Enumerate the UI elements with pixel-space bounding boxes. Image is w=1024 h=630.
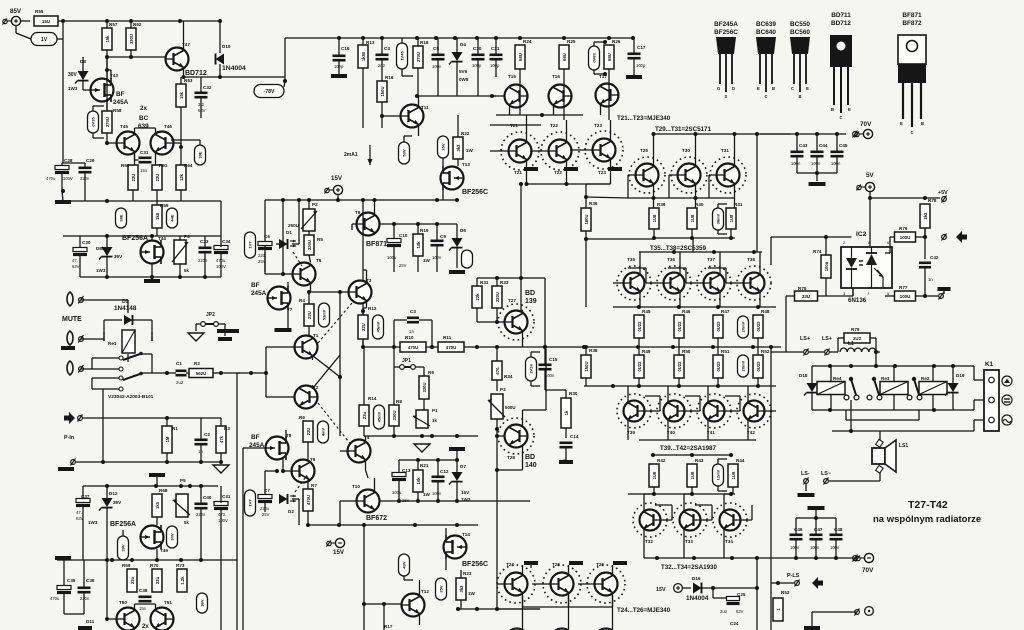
label 2SA1930 bbox=[661, 564, 717, 571]
resistor R73 bbox=[176, 563, 187, 592]
svg-text:BF: BF bbox=[251, 434, 260, 441]
wire Re4 wires bbox=[830, 366, 832, 410]
label 1W3 D12 bbox=[88, 520, 98, 525]
label D11 bbox=[86, 619, 95, 624]
svg-text:T23: T23 bbox=[598, 170, 606, 175]
svg-text:1U8: 1U8 bbox=[652, 471, 657, 479]
label 1W R23 bbox=[468, 591, 476, 596]
svg-text:3k3: 3k3 bbox=[459, 585, 464, 593]
connector 15V bot conn bbox=[327, 538, 345, 547]
svg-text:C30: C30 bbox=[82, 240, 91, 245]
svg-text:T30: T30 bbox=[682, 148, 690, 153]
wire x497 col bbox=[496, 584, 498, 609]
wire x497 col3 bbox=[496, 447, 498, 584]
svg-text:G: G bbox=[717, 86, 720, 91]
label 6N136 bbox=[848, 297, 867, 304]
transistor T3 bbox=[349, 278, 372, 304]
label 5V bbox=[866, 172, 874, 179]
svg-text:T22: T22 bbox=[550, 123, 558, 128]
resistor R3 bbox=[216, 426, 230, 453]
svg-text:C: C bbox=[840, 115, 843, 120]
label BF T8 bbox=[251, 434, 260, 441]
wire T7 links bbox=[287, 282, 289, 329]
svg-text:C37: C37 bbox=[81, 494, 90, 499]
label 2mA1 bbox=[344, 152, 358, 158]
wire R64 bot bbox=[180, 190, 182, 201]
node nR36t bbox=[584, 195, 588, 199]
node nT28b bbox=[495, 434, 499, 438]
label 15V d16 bbox=[656, 587, 666, 593]
svg-text:R2: R2 bbox=[194, 361, 200, 366]
wire 70V rail bbox=[760, 133, 846, 135]
resistor R1 bbox=[162, 426, 178, 453]
wire R50 top bbox=[678, 347, 680, 355]
resistor R63 bbox=[176, 78, 193, 107]
node n43 bbox=[105, 68, 109, 72]
wire riser x285 bbox=[284, 38, 286, 77]
svg-text:1W3: 1W3 bbox=[461, 497, 471, 502]
wire C1-R2 bbox=[167, 372, 189, 374]
wire R45 bot bbox=[638, 338, 640, 347]
svg-text:100n: 100n bbox=[790, 545, 800, 550]
wire T28 links bbox=[523, 410, 547, 460]
label 1N4004 b bbox=[686, 595, 709, 602]
wire main top bus bbox=[285, 37, 634, 39]
node reg2 nodes bbox=[105, 484, 203, 488]
svg-text:39V: 39V bbox=[113, 500, 122, 505]
wire rail y525 bbox=[309, 524, 478, 526]
label MUTE bbox=[62, 316, 82, 323]
label BC bbox=[139, 115, 149, 122]
svg-text:T10: T10 bbox=[352, 484, 360, 489]
wire N2 bots bbox=[796, 540, 836, 558]
node nR4 bbox=[307, 290, 311, 294]
svg-text:C: C bbox=[791, 86, 794, 91]
wire C4 links bbox=[381, 38, 383, 81]
wire Re2 wires bbox=[932, 366, 934, 410]
svg-text:T44: T44 bbox=[158, 236, 166, 241]
label 100V C41 bbox=[218, 518, 228, 523]
wire R7 bot bbox=[307, 511, 309, 525]
zener diode D4 bbox=[449, 42, 466, 65]
wire T6-R7 bbox=[307, 480, 309, 490]
wire C29 links bbox=[84, 163, 86, 201]
connector 70V open bbox=[853, 131, 858, 138]
diode D10 bbox=[216, 44, 231, 65]
svg-text:P5: P5 bbox=[180, 478, 186, 483]
resistor R62 bbox=[126, 22, 142, 50]
test-point oval 1V45 bbox=[397, 43, 408, 69]
wire out emitters bbox=[640, 292, 760, 307]
svg-text:C45: C45 bbox=[839, 143, 848, 148]
capacitor C4 bbox=[376, 46, 391, 68]
svg-text:C40: C40 bbox=[203, 495, 212, 500]
jumper JP2 bbox=[201, 322, 219, 327]
wire R61 top bbox=[155, 152, 157, 165]
speaker conn bot bbox=[876, 465, 884, 473]
svg-text:Re1: Re1 bbox=[108, 341, 117, 346]
svg-text:R22: R22 bbox=[461, 131, 470, 136]
test-point oval 35V bot bbox=[436, 578, 447, 600]
wire T36 c bbox=[679, 252, 681, 275]
test-point oval 53V bbox=[399, 142, 410, 164]
svg-text:R75: R75 bbox=[798, 286, 807, 291]
node nA bbox=[105, 199, 109, 203]
potentiometer P5 bbox=[173, 478, 190, 525]
wire T4 c bbox=[365, 436, 367, 443]
wire R55 to node bbox=[58, 20, 63, 22]
transistor T19 (partial) bbox=[551, 629, 574, 630]
wire x497 col2 bbox=[496, 429, 498, 447]
wire R9 bot bbox=[423, 399, 425, 410]
svg-text:D10: D10 bbox=[222, 44, 231, 49]
svg-text:330U: 330U bbox=[422, 382, 427, 392]
wire R74 wires bbox=[825, 237, 827, 296]
wire T46 base right bbox=[174, 142, 182, 144]
svg-text:12mV: 12mV bbox=[716, 469, 721, 480]
K1 icons bbox=[1002, 376, 1012, 425]
svg-text:6N136: 6N136 bbox=[848, 297, 867, 304]
transistor T15 bbox=[505, 74, 528, 108]
svg-text:63V: 63V bbox=[72, 264, 80, 269]
svg-text:T23: T23 bbox=[594, 123, 602, 128]
resistor R76 bbox=[895, 226, 916, 242]
wire y184-ext bbox=[520, 184, 522, 276]
wire sw out bbox=[141, 354, 167, 373]
svg-text:R62: R62 bbox=[133, 22, 142, 27]
wire gnd out2 stub bbox=[943, 291, 945, 294]
transistor T1 bbox=[295, 333, 319, 359]
wire C28 bot bbox=[62, 173, 63, 201]
wire base bus 2 bbox=[490, 124, 541, 126]
svg-text:R14: R14 bbox=[368, 396, 377, 401]
svg-text:S: S bbox=[725, 94, 728, 99]
svg-text:T46: T46 bbox=[164, 124, 172, 129]
label BD139b bbox=[525, 298, 537, 305]
svg-text:K1: K1 bbox=[985, 361, 993, 368]
wire R33 bot bbox=[496, 308, 498, 322]
svg-text:470u: 470u bbox=[46, 176, 56, 181]
svg-text:22k: 22k bbox=[475, 293, 480, 301]
relay coil Re3 bbox=[880, 382, 908, 395]
node nP3 bbox=[495, 427, 499, 431]
wire T8 gate feed bbox=[243, 447, 266, 449]
wire outb drop bbox=[811, 612, 813, 626]
ground T23 gnd bbox=[608, 167, 622, 171]
capacitor C2 bbox=[195, 432, 211, 454]
wire bus y238 bbox=[653, 237, 735, 239]
wire spk bottom wire bbox=[829, 472, 880, 481]
capacitor C41 bbox=[214, 494, 231, 517]
svg-text:562U: 562U bbox=[196, 371, 207, 376]
test-point oval 38mV bbox=[713, 208, 724, 230]
label Re2 bbox=[921, 376, 930, 381]
wire D19 wires bbox=[952, 366, 954, 410]
label T27 bbox=[508, 298, 516, 303]
relay coil Re4 bbox=[817, 382, 845, 395]
svg-text:1V7: 1V7 bbox=[248, 241, 253, 249]
svg-text:100U: 100U bbox=[900, 235, 911, 240]
wire R62 top bbox=[130, 21, 132, 28]
label 1W R22 bbox=[466, 148, 474, 153]
svg-text:270U: 270U bbox=[105, 117, 110, 127]
package BD711/BD712 pkg bbox=[830, 12, 852, 120]
wire D1 wires bbox=[276, 200, 299, 244]
svg-text:D16: D16 bbox=[692, 576, 701, 581]
ground gnd outb bbox=[804, 626, 820, 630]
wire R34 links bbox=[496, 347, 498, 391]
connector 85V input bbox=[3, 16, 21, 25]
ground gnd JP2b bbox=[218, 337, 232, 341]
node rail D nodes bbox=[105, 558, 203, 562]
test-point oval 39E bbox=[195, 145, 206, 165]
svg-text:R60: R60 bbox=[121, 163, 130, 168]
svg-text:100n: 100n bbox=[830, 545, 840, 550]
wire rly bus3 bbox=[832, 430, 974, 432]
svg-text:P3: P3 bbox=[500, 387, 506, 392]
wire x778 col bbox=[770, 347, 772, 630]
label 15V D7 bbox=[461, 490, 470, 495]
wire R46 bot bbox=[678, 338, 680, 347]
wire x364 col bbox=[363, 525, 365, 630]
resistor R77 bbox=[895, 285, 916, 301]
wire 5V col bbox=[869, 192, 871, 258]
capacitor C15 bbox=[539, 357, 558, 378]
wire JP2 left bbox=[196, 324, 200, 331]
label 85V bbox=[10, 8, 22, 15]
wire T12 c bbox=[419, 580, 421, 597]
svg-text:D: D bbox=[732, 86, 735, 91]
svg-text:5V6: 5V6 bbox=[459, 69, 468, 74]
resistor R25 bbox=[559, 39, 576, 69]
capacitor C38 bbox=[139, 588, 152, 611]
node x340 nodes bbox=[338, 290, 342, 379]
resistor R18 bbox=[413, 40, 429, 68]
test-point oval 35V top bbox=[438, 136, 449, 158]
label LS~ b bbox=[821, 471, 831, 477]
connector input jack 1 bbox=[67, 292, 84, 306]
wire R24 col bbox=[519, 69, 521, 84]
label 1W3 D6 bbox=[461, 262, 471, 267]
wire 53V arrow bbox=[404, 136, 412, 142]
node nT11c bbox=[415, 94, 419, 98]
resistor R16 bbox=[377, 75, 394, 102]
svg-text:150U: 150U bbox=[380, 86, 385, 96]
wire input gnd bus bbox=[76, 461, 221, 463]
ground C14 bar bbox=[559, 460, 573, 464]
transistor T16 bbox=[549, 74, 572, 108]
zener diode D8b bbox=[96, 246, 113, 260]
svg-text:15n: 15n bbox=[139, 606, 147, 611]
svg-text:100p: 100p bbox=[490, 63, 500, 68]
wire JP1 wires bbox=[394, 347, 424, 376]
wire T4 e bbox=[366, 460, 369, 479]
svg-text:R44: R44 bbox=[736, 458, 745, 463]
wire R3 top bbox=[220, 418, 222, 426]
capacitor C13 bbox=[392, 468, 411, 495]
node nT11b bbox=[380, 114, 384, 118]
wire reg2 top rail bbox=[83, 485, 218, 487]
node top bus nodes bbox=[337, 36, 635, 40]
test-point oval 20mV b bbox=[738, 355, 749, 377]
capacitor C20 bbox=[472, 46, 485, 68]
svg-text:R18: R18 bbox=[420, 40, 429, 45]
arrow 2mA1 bbox=[367, 145, 372, 165]
resistor R43 bbox=[687, 458, 704, 487]
wire out bases bbox=[613, 268, 744, 283]
dashed T3-T1 bbox=[318, 303, 352, 343]
wire T9 emitter rail bbox=[380, 223, 458, 225]
svg-text:C48: C48 bbox=[834, 527, 843, 532]
svg-text:R49: R49 bbox=[642, 349, 651, 354]
label T34b bbox=[725, 539, 733, 544]
test-point oval 4mV bbox=[318, 421, 329, 443]
opto photodiode bbox=[866, 247, 877, 288]
resistor R12 bbox=[358, 306, 377, 339]
ground gnd N2 bbox=[808, 506, 825, 510]
svg-text:BF245A: BF245A bbox=[714, 21, 738, 28]
wire C28-C29 top bbox=[62, 162, 85, 164]
svg-text:T39...T42=2SA1987: T39...T42=2SA1987 bbox=[660, 445, 716, 452]
wire C35 links bbox=[64, 560, 84, 614]
svg-text:R36: R36 bbox=[589, 201, 598, 206]
svg-text:22U: 22U bbox=[131, 174, 136, 182]
connector out arrow bbox=[956, 231, 967, 243]
svg-text:T16: T16 bbox=[552, 74, 560, 79]
wire T49 top bbox=[156, 517, 158, 525]
svg-text:T35...T38=2SC5359: T35...T38=2SC5359 bbox=[650, 245, 706, 252]
pin6 bbox=[887, 240, 890, 245]
capacitor C35 bbox=[50, 578, 76, 601]
relay switch S1 bbox=[119, 352, 143, 391]
node bus taps bbox=[105, 19, 222, 23]
label JP2 bbox=[206, 312, 215, 318]
label T27-T42 bbox=[908, 499, 948, 511]
ground gnd jack bbox=[61, 346, 75, 350]
capacitor C3 bbox=[407, 309, 419, 322]
wire x363 col2 bbox=[362, 303, 364, 347]
wire T11 e down bbox=[418, 125, 420, 137]
pin8 bbox=[868, 240, 871, 245]
package BC550/BC560 pkg bbox=[790, 21, 810, 99]
wire base line to T47 bbox=[107, 56, 166, 58]
svg-text:R42: R42 bbox=[657, 458, 666, 463]
connector P-In circle bbox=[78, 415, 83, 422]
wire D10 to node bbox=[219, 64, 221, 77]
transistor T45 bbox=[117, 124, 140, 155]
svg-text:C6: C6 bbox=[264, 234, 270, 239]
label P-In bbox=[64, 435, 74, 441]
wire pre emitters bbox=[654, 184, 735, 208]
svg-text:10k: 10k bbox=[416, 241, 421, 249]
svg-text:C41: C41 bbox=[222, 494, 231, 499]
svg-text:T25: T25 bbox=[552, 562, 560, 567]
wire R77 wires bbox=[885, 295, 938, 297]
ground gnd R3 bbox=[213, 465, 229, 473]
svg-text:T17: T17 bbox=[599, 74, 607, 79]
wire R1 bot bbox=[166, 453, 168, 462]
svg-text:T32...T34=2SA1930: T32...T34=2SA1930 bbox=[661, 564, 717, 571]
label 25V C13 bbox=[402, 498, 410, 503]
label R17 bbox=[384, 624, 393, 629]
wire T47 collector up bbox=[183, 21, 185, 51]
svg-text:2x: 2x bbox=[142, 624, 149, 630]
ground T21 gnd bbox=[524, 167, 538, 171]
wire to -78V riser bbox=[220, 76, 285, 78]
svg-text:P1: P1 bbox=[432, 408, 438, 413]
svg-text:R41: R41 bbox=[734, 202, 743, 207]
wire y558 bus bbox=[644, 557, 857, 559]
resistor R69 bbox=[122, 563, 137, 592]
svg-text:245A: 245A bbox=[251, 290, 267, 297]
svg-text:68U: 68U bbox=[607, 53, 612, 61]
node nR36b bbox=[584, 237, 588, 241]
svg-text:BF871: BF871 bbox=[902, 12, 922, 19]
svg-text:D8b: D8b bbox=[96, 246, 105, 251]
svg-text:D4: D4 bbox=[460, 42, 466, 47]
wire y494 line bbox=[628, 493, 735, 495]
wire T29 c bbox=[653, 134, 655, 167]
wire D8 bot bbox=[83, 81, 91, 90]
wire T9 c up bbox=[374, 200, 376, 216]
wire R3 bot bbox=[220, 453, 222, 462]
svg-text:R34: R34 bbox=[504, 374, 513, 379]
capacitor C6 bbox=[258, 234, 272, 258]
node y558 nodes bbox=[655, 556, 838, 560]
node y200 nodes bbox=[281, 198, 459, 202]
wire T10 e rail bbox=[380, 500, 531, 502]
svg-text:E: E bbox=[806, 86, 809, 91]
node n545 bbox=[543, 345, 547, 349]
label 15V D6 bbox=[461, 255, 470, 260]
wire T1 base bbox=[266, 346, 295, 348]
label BD139 bbox=[525, 290, 535, 297]
wire T35 c bbox=[639, 252, 640, 275]
transistor T21 bbox=[501, 123, 539, 170]
wire T13 links bbox=[442, 158, 444, 200]
node n10 bbox=[218, 75, 222, 79]
transistor T29 bbox=[629, 148, 665, 193]
svg-text:100u: 100u bbox=[824, 261, 829, 271]
svg-text:BD: BD bbox=[525, 454, 535, 461]
wire R6-T6 bbox=[307, 442, 309, 460]
label 39V D12 bbox=[113, 500, 122, 505]
wire 0V35 low bbox=[93, 133, 104, 138]
wire main rail y347 bbox=[363, 346, 781, 348]
node nR7 bbox=[306, 523, 310, 527]
wire LS- stub bbox=[805, 484, 807, 491]
wire 43V arrow bbox=[404, 576, 413, 580]
transistor T28 bbox=[498, 418, 534, 454]
wire R13 links bbox=[362, 38, 364, 128]
FET T8 bbox=[266, 433, 292, 460]
svg-text:45mV: 45mV bbox=[376, 321, 381, 332]
svg-text:D12: D12 bbox=[109, 491, 118, 496]
wire top-left bus bbox=[63, 20, 220, 22]
svg-text:T24...T26=MJE340: T24...T26=MJE340 bbox=[617, 607, 671, 614]
wire D16 wires bbox=[682, 587, 757, 589]
wire sw drops bbox=[850, 400, 852, 431]
svg-text:R46: R46 bbox=[682, 309, 691, 314]
wire C10 links bbox=[394, 224, 457, 272]
svg-text:C1: C1 bbox=[176, 361, 182, 366]
svg-text:BD: BD bbox=[525, 290, 535, 297]
svg-text:R77: R77 bbox=[899, 285, 908, 290]
label 25V C10 bbox=[399, 263, 407, 268]
wire R31 top bbox=[476, 278, 478, 286]
potentiometer P1 bbox=[413, 408, 438, 428]
node nT50b bbox=[105, 617, 109, 621]
